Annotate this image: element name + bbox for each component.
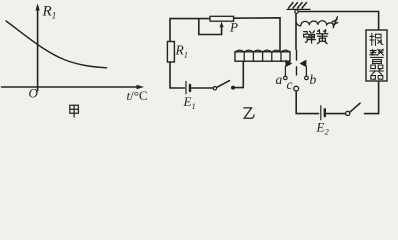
contact a stem <box>284 67 286 77</box>
fixed support hatching <box>289 3 307 8</box>
svg-text:E2: E2 <box>316 120 330 137</box>
svg-text:R1: R1 <box>175 43 189 60</box>
wire: switch S2 to alarm box bottom <box>365 82 379 114</box>
fixed support line <box>287 8 310 10</box>
spring <box>296 21 334 26</box>
svg-text:R1: R1 <box>42 4 57 22</box>
wire: rheostat P to top-right corner, down to coil <box>234 18 280 52</box>
R1 vs t curve <box>6 21 107 68</box>
wire: battery E1 to switch S1 <box>192 87 214 89</box>
graph y-axis <box>37 8 39 91</box>
svg-text:E1: E1 <box>183 94 196 111</box>
svg-text:P: P <box>229 20 238 35</box>
pivot circle <box>295 10 299 14</box>
contact b flag <box>300 60 307 68</box>
contact a flag <box>285 60 292 68</box>
caption 甲 (glyph strokes) <box>70 105 79 117</box>
armature blade (solid part) <box>295 14 297 50</box>
label 弹 (glyph strokes) <box>304 31 316 43</box>
label 簧 (glyph strokes) <box>317 30 328 44</box>
wire: switch S1 to coil bottom-left <box>233 61 243 87</box>
wire: left vertical bottom + bottom-left horizontal <box>170 62 185 88</box>
label 报 (glyph strokes) <box>370 34 383 46</box>
alarm box <box>366 30 387 81</box>
rheostat P body <box>210 16 234 21</box>
contact b terminal circle <box>305 76 309 80</box>
spring anchor diagonal with slashes <box>332 17 338 28</box>
graph x-axis arrowhead <box>137 85 145 89</box>
battery E2 long plate <box>320 106 322 120</box>
graph x-axis <box>2 86 140 88</box>
label 器 (glyph strokes) <box>370 65 384 79</box>
switch S2 terminal circle <box>346 111 350 115</box>
electromagnet coil body <box>235 52 290 61</box>
rheostat P wiper bypass wire <box>199 19 222 35</box>
wire: battery E2 to switch S2 <box>326 113 345 115</box>
junction dot at switch S1 right terminal <box>231 86 235 90</box>
switch S1 terminal circle <box>213 87 216 90</box>
svg-text:c: c <box>287 77 293 92</box>
battery E1 long plate <box>185 82 187 94</box>
armature lever and wire down to alarm box <box>298 12 378 31</box>
contact a terminal circle <box>284 76 288 80</box>
svg-text:a: a <box>276 72 283 87</box>
battery E1 short plate <box>189 85 191 91</box>
wire: terminal c down and bottom-right horizontal <box>296 91 318 114</box>
resistor R1 <box>167 42 174 63</box>
electromagnet coil loop arcs <box>235 50 290 52</box>
svg-text:O: O <box>29 86 39 101</box>
contact b stem <box>305 67 307 77</box>
svg-text:b: b <box>310 72 317 87</box>
graph y-axis arrowhead <box>35 4 39 11</box>
svg-text:t/°C: t/°C <box>127 88 148 103</box>
rheostat P wiper arrowhead <box>220 22 224 28</box>
battery E2 short plate <box>324 109 326 116</box>
contact blade dashed line <box>296 51 298 76</box>
caption 乙 (glyph strokes) <box>244 108 254 118</box>
switch S1 lever <box>217 81 230 88</box>
wire: circuit left vertical top + top-left horizontal <box>170 19 210 42</box>
terminal c circle <box>294 86 299 91</box>
electromagnet coil loop dividers <box>244 52 281 61</box>
label 警 (glyph strokes) <box>370 49 384 63</box>
switch S2 lever <box>350 103 360 112</box>
